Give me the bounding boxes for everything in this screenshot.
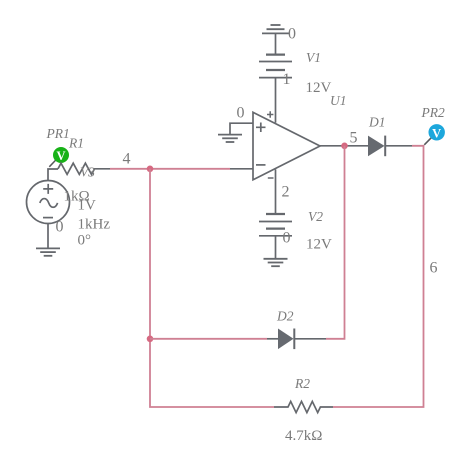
svg-text:0: 0 [283, 230, 291, 247]
wire: V+ power line from V1 to op-amp [275, 78, 277, 123]
ground (V2) [264, 259, 288, 266]
battery V2 [259, 214, 292, 236]
junction node 4 [147, 166, 154, 173]
svg-text:0: 0 [56, 219, 64, 236]
svg-text:V: V [432, 126, 441, 140]
svg-text:D1: D1 [368, 115, 386, 130]
wire: node 5 down to D2 cathode (pink) [326, 146, 345, 339]
svg-text:PR2: PR2 [421, 105, 445, 120]
wire: V- power line from op-amp to V2 [275, 169, 277, 214]
wire: D1 cathode lead (grey) [386, 145, 412, 147]
svg-text:2: 2 [282, 184, 290, 201]
resistor R2 [274, 401, 333, 412]
ground (op-amp + input) [218, 135, 242, 142]
svg-text:V: V [56, 149, 65, 163]
svg-text:5: 5 [350, 130, 358, 147]
wire: node 4 branch to D2 anode (pink) [150, 338, 267, 340]
svg-text:12V: 12V [306, 80, 332, 96]
ground (top, inverted) [262, 25, 289, 33]
diode D2 [278, 329, 294, 350]
svg-text:12V: 12V [306, 237, 332, 253]
wire: grey lead into op-amp inverting input [230, 168, 253, 170]
svg-text:V2: V2 [308, 209, 323, 224]
svg-text:R1: R1 [68, 136, 84, 151]
wire: op-amp output to D1 anode (grey) [320, 145, 368, 147]
svg-text:0: 0 [288, 26, 296, 43]
wire: D2 cathode lead (grey) [295, 338, 326, 340]
svg-text:4: 4 [123, 151, 131, 168]
svg-text:V1: V1 [306, 50, 321, 65]
junction node 4 at D2 row [147, 336, 154, 343]
svg-text:V3: V3 [80, 165, 95, 180]
wire: top ground stub to V1 [275, 33, 277, 54]
svg-text:4.7kΩ: 4.7kΩ [285, 428, 322, 444]
svg-text:0: 0 [237, 105, 245, 122]
op-amp U1 [253, 111, 320, 180]
svg-text:U1: U1 [330, 93, 347, 108]
svg-text:1kHz: 1kHz [78, 217, 111, 233]
ground (V3) [36, 248, 60, 255]
wire: R1 to node 4 junction to op-amp inverting input (pink) [110, 168, 230, 170]
battery V1 [259, 55, 292, 78]
svg-text:R2: R2 [294, 376, 310, 391]
AC source V3 [27, 181, 70, 224]
resistor R1 [58, 163, 110, 174]
wire: to PR2 corner, down right side and bottom right (pink) [333, 146, 424, 407]
wire: D2 anode lead (grey) [267, 338, 278, 340]
wire: V3 bottom stub to ground [47, 224, 49, 249]
wire: non-inverting input to ground corner [230, 123, 253, 134]
svg-text:0°: 0° [78, 233, 92, 249]
svg-text:D2: D2 [276, 309, 294, 324]
diode D1 [368, 136, 385, 157]
svg-text:6: 6 [430, 260, 438, 277]
svg-text:1V: 1V [78, 198, 97, 214]
wire: V2 to bottom ground [275, 236, 277, 259]
wire: node 4 down to bottom row and along bottom (pink) [150, 169, 274, 407]
probe PR2 [424, 124, 445, 145]
junction node 5 [341, 143, 348, 150]
probe PR1 [49, 147, 69, 167]
wire: V3 top stub to R1 [48, 169, 58, 181]
svg-text:PR1: PR1 [46, 126, 70, 141]
svg-text:1: 1 [283, 71, 291, 88]
